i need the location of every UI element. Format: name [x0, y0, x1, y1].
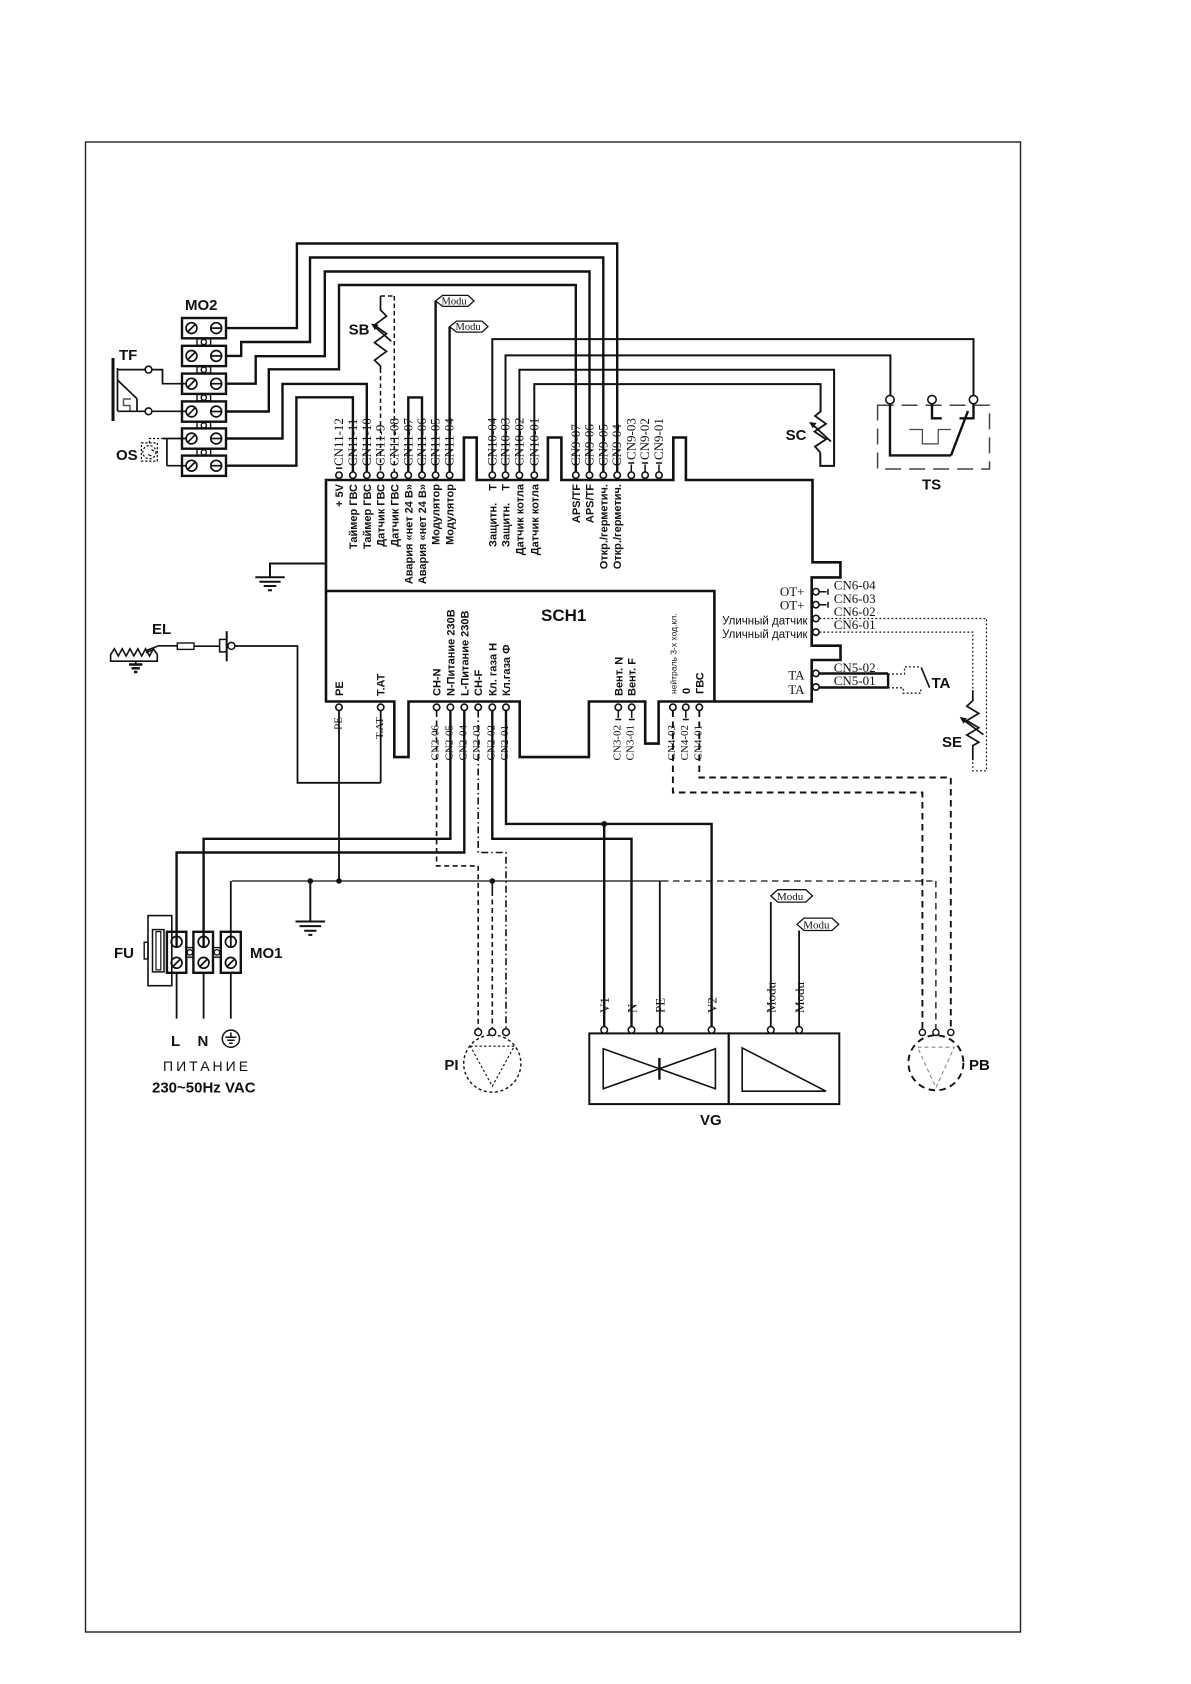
wire CH-F CN2-03 dash-dot to PI right pin	[478, 711, 506, 1029]
wire MO2 box5 to CN11-10	[226, 384, 367, 472]
wire MO2 box4 to CN9-07	[226, 285, 576, 472]
gas valve VG box 2	[729, 1033, 840, 1104]
svg-text:N-Питание 230В: N-Питание 230В	[445, 609, 457, 696]
VG valve bowtie	[603, 1049, 715, 1089]
svg-text:CN4-01: CN4-01	[692, 725, 704, 760]
PB triangle	[918, 1047, 955, 1087]
ignition electrode EL burner	[111, 649, 158, 661]
svg-text:CN2-03: CN2-03	[471, 725, 483, 761]
connector CN10 pin circles	[489, 472, 537, 478]
outdoor sensor SE dotted wire from CN6-02	[819, 619, 986, 771]
svg-text:Modu: Modu	[442, 297, 468, 308]
svg-text:PB: PB	[969, 1057, 990, 1074]
svg-text:Уличный датчик: Уличный датчик	[722, 629, 808, 641]
Modu flag (VG2)	[797, 918, 839, 931]
svg-text:CN11-12: CN11-12	[331, 418, 346, 466]
TS internal contacts	[890, 404, 974, 456]
wire MO2 box2 to CN9-05	[226, 258, 603, 472]
wire CN11-05 to Modu flag	[434, 301, 436, 472]
pump PI dashed circle	[464, 1035, 521, 1092]
wire TF top to MO2 box3	[118, 370, 187, 384]
svg-text:OS: OS	[116, 447, 138, 464]
svg-text:Модулятор: Модулятор	[445, 484, 457, 545]
wire CN10-02 to SC bottom	[519, 370, 834, 472]
SB arrowhead	[371, 324, 378, 331]
chassis ground symbol	[296, 881, 326, 935]
TA dotted switch	[888, 667, 921, 693]
svg-text:Modu: Modu	[456, 322, 482, 333]
wire VG Modu1 up	[770, 902, 772, 1027]
PI pin circles	[475, 1029, 510, 1036]
svg-text:TA: TA	[788, 682, 805, 697]
wire CN10-04 to TS right terminal	[492, 339, 973, 472]
svg-text:Кл. газа Н: Кл. газа Н	[487, 643, 499, 696]
svg-text:Modu: Modu	[777, 891, 804, 903]
svg-text:SB: SB	[349, 322, 370, 339]
pin CN11-12 no-connect tick	[336, 467, 342, 469]
wire TF bottom to MO2 box4	[118, 410, 187, 412]
TF terminal circles	[145, 366, 152, 414]
connector CN6 pin circles	[813, 589, 819, 636]
svg-text:CN3-01: CN3-01	[625, 725, 637, 760]
svg-text:Вент. F: Вент. F	[627, 658, 639, 696]
wire CN4-03 dashed to PB left pin	[673, 711, 923, 1030]
MO2 inter-block links	[197, 339, 211, 456]
svg-text:CH-F: CH-F	[473, 669, 485, 696]
svg-text:0: 0	[681, 688, 693, 694]
MO2 screw terminals	[186, 323, 222, 471]
svg-text:EL: EL	[152, 621, 171, 638]
protective earth symbol	[222, 1030, 239, 1047]
svg-text:APS/TF: APS/TF	[585, 484, 597, 523]
connector CN5 pin circles	[813, 670, 819, 690]
svg-text:CN4-03: CN4-03	[666, 725, 678, 761]
wire PI middle pin	[491, 881, 493, 891]
svg-text:MO2: MO2	[185, 297, 218, 314]
svg-text:Кл.газа Ф: Кл.газа Ф	[501, 645, 513, 696]
TS terminal circles	[886, 395, 978, 403]
svg-text:CN4-02: CN4-02	[679, 725, 691, 760]
svg-text:Таймер ГВС: Таймер ГВС	[348, 484, 360, 549]
svg-text:Модулятор: Модулятор	[431, 484, 443, 545]
svg-text:Откр./герметич.: Откр./герметич.	[612, 484, 624, 569]
pin stubs CN3-02 CN3-01 CN4-02	[615, 711, 689, 720]
svg-text:Таймер ГВС: Таймер ГВС	[362, 484, 374, 549]
svg-text:+ 5V: + 5V	[334, 483, 346, 507]
wire CN10-01 to SC top	[534, 384, 820, 472]
Modu flag (CN11-04)	[450, 321, 488, 333]
connector CN2 pin circles	[433, 704, 509, 710]
EL wire to plug	[194, 645, 220, 647]
MO1 screw terminals	[171, 936, 236, 968]
svg-text:MO1: MO1	[250, 945, 283, 962]
svg-text:Авария «нет 24 В»: Авария «нет 24 В»	[417, 484, 429, 584]
potentiometer SB	[374, 296, 391, 369]
outside sensor OS	[141, 443, 157, 461]
svg-text:ПИТАНИЕ: ПИТАНИЕ	[163, 1058, 251, 1074]
wire MO1 PE down	[230, 973, 232, 1019]
wire N CN2-05 to MO1	[204, 711, 451, 948]
wire V1 branch to VG V1 pin	[603, 824, 605, 1027]
wire VG PE pin to PE bus	[659, 881, 661, 1027]
thermistor SE	[963, 690, 984, 760]
EL electrode and spark gap	[146, 646, 178, 653]
svg-text:OT+: OT+	[780, 597, 805, 612]
svg-text:CN9-01: CN9-01	[651, 418, 666, 460]
fuse FU body	[144, 916, 172, 986]
svg-text:TA: TA	[932, 675, 951, 692]
svg-text:V1: V1	[597, 997, 612, 1013]
svg-text:T.AT: T.AT	[376, 673, 388, 696]
outdoor sensor SE dotted wire from CN6-01	[819, 632, 972, 690]
wire MO1 L down	[176, 973, 178, 1019]
svg-text:CN2-06: CN2-06	[430, 725, 442, 761]
svg-text:SE: SE	[942, 734, 962, 751]
PB pin circles	[919, 1029, 954, 1035]
wire OS to MO2 box5 and box6	[149, 439, 163, 443]
border frame	[86, 142, 1021, 1632]
svg-text:SCH1: SCH1	[541, 606, 586, 625]
wire CH-N CN2-06 dashed to PI left pin	[437, 711, 479, 1029]
VG pin circles	[601, 1027, 802, 1034]
svg-text:SC: SC	[786, 427, 807, 444]
connector CN11 pin circles	[336, 472, 453, 478]
svg-text:ГВС: ГВС	[694, 672, 706, 694]
svg-text:Авария «нет 24 В»: Авария «нет 24 В»	[403, 484, 415, 584]
svg-text:Modu: Modu	[803, 919, 830, 931]
EL plug connector	[220, 631, 227, 661]
SB wire dashed to CN11-9	[380, 369, 382, 472]
pump PB dashed circle	[908, 1035, 963, 1090]
wire MO1 PE up to PE bus	[230, 881, 232, 947]
SCH1 board outline	[326, 438, 841, 758]
wire VG Modu2 up	[798, 931, 800, 1027]
wire L CN2-04 to MO1/FU	[177, 711, 465, 948]
svg-text:TS: TS	[922, 477, 941, 494]
jumper wire CN11-07 to CN11-06	[408, 397, 422, 471]
wire MO2 box3 to CN9-06	[226, 272, 590, 472]
svg-text:N: N	[198, 1033, 209, 1050]
TA switch blade	[921, 667, 929, 687]
wire CN2-02 to VG N pin	[492, 711, 631, 1027]
wire CN2-01 to VG V2 pin	[506, 711, 712, 1027]
wire CN4-01 dashed to PB right pin	[699, 711, 951, 1030]
svg-text:TA: TA	[788, 667, 805, 682]
boiler thermostat TS dashed box	[878, 405, 990, 469]
svg-text:CN9-02: CN9-02	[637, 418, 652, 460]
wire PE pin down to PE bus	[338, 711, 340, 882]
svg-text:N: N	[624, 1003, 639, 1013]
EL fuse body	[177, 643, 194, 649]
svg-text:Вент. N: Вент. N	[613, 657, 625, 696]
svg-text:CN5-01: CN5-01	[834, 673, 876, 688]
junction ground branch	[308, 878, 314, 884]
wire CN11-04 to Modu flag	[448, 327, 450, 472]
svg-text:Датчик ГВС: Датчик ГВС	[389, 484, 401, 547]
junction PE pin / bus	[336, 878, 342, 884]
svg-text:PI: PI	[444, 1057, 458, 1074]
svg-text:L-Питание 230В: L-Питание 230В	[459, 611, 471, 696]
thermistor SC	[812, 409, 831, 453]
svg-text:PE: PE	[653, 998, 668, 1013]
pin stubs CN6-04 CN6-03	[819, 589, 828, 608]
junction PI middle branch	[490, 878, 496, 884]
connector CN9 pin circles	[573, 472, 663, 478]
Modu flag (CN11-05)	[436, 295, 474, 307]
svg-text:Уличный датчик: Уличный датчик	[722, 616, 808, 628]
wire MO1 N down	[203, 973, 205, 1019]
svg-text:APS/TF: APS/TF	[571, 484, 583, 523]
SB wire dashed to CN11-08	[381, 296, 395, 472]
svg-text:230~50Hz VAC: 230~50Hz VAC	[152, 1080, 256, 1097]
junction V1 branch	[601, 821, 607, 827]
svg-text:нейтраль 3-х ход.кл.: нейтраль 3-х ход.кл.	[668, 613, 678, 694]
svg-text:VG: VG	[700, 1112, 722, 1129]
Modu flag (VG1)	[771, 890, 813, 903]
svg-text:L: L	[171, 1033, 180, 1050]
PE bus dashed to PB	[662, 881, 936, 1030]
wire EL to T.AT pin	[235, 646, 381, 783]
ground at SCH1 left edge	[255, 564, 326, 591]
svg-text:Датчик котла: Датчик котла	[514, 483, 526, 555]
wire MO2 box1 to CN9-04	[226, 244, 617, 472]
PE bus horizontal	[232, 880, 662, 882]
wire T.AT pin down	[380, 711, 382, 783]
room thermostat link CN5 bracket	[819, 674, 888, 688]
svg-text:CN6-01: CN6-01	[834, 617, 876, 632]
svg-text:Датчик ГВС: Датчик ГВС	[376, 484, 388, 547]
bottom PE / T.AT pin circles	[336, 704, 384, 710]
PI triangle	[470, 1046, 514, 1086]
svg-text:PE: PE	[334, 681, 346, 696]
svg-text:CH-N: CH-N	[432, 668, 444, 696]
pin stubs CN9-03 CN9-02 CN9-01	[628, 463, 662, 472]
MO1 inter-block links	[186, 948, 221, 958]
wire MO2 box6 to CN11-11	[226, 397, 353, 471]
SC arrowhead	[809, 422, 816, 428]
wire CN10-03 to TS left terminal	[506, 355, 891, 471]
terminal block MO2	[182, 318, 226, 476]
EL ground	[129, 661, 142, 672]
svg-text:CN9-03: CN9-03	[623, 418, 638, 460]
connector CN3 pin circles	[615, 704, 635, 710]
flow switch TF	[113, 358, 137, 421]
svg-text:TF: TF	[119, 347, 137, 364]
svg-text:CN3-02: CN3-02	[611, 725, 623, 760]
svg-text:Датчик котла: Датчик котла	[529, 483, 541, 555]
VG modulator ramp	[742, 1048, 826, 1091]
svg-text:FU: FU	[114, 945, 134, 962]
gas valve VG box 1	[589, 1033, 728, 1104]
connector CN4 pin circles	[670, 704, 703, 710]
SE arrowhead	[960, 717, 967, 724]
svg-text:Откр./герметич.: Откр./герметич.	[598, 484, 610, 569]
terminal block MO1	[167, 932, 241, 973]
SCH1 internal divider	[326, 591, 714, 702]
svg-text:V2: V2	[704, 997, 719, 1013]
